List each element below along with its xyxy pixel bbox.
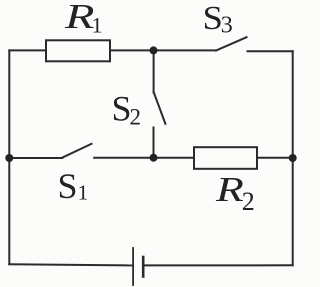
svg-text:2: 2 <box>130 104 142 129</box>
wire node A to S3 pivot <box>154 49 217 51</box>
node left junction dot <box>5 154 13 162</box>
label S3 <box>203 0 233 38</box>
node A junction dot <box>150 46 158 54</box>
wire right edge <box>292 51 294 265</box>
switch S1 <box>62 144 91 158</box>
battery short plate <box>142 257 145 277</box>
switch S2 <box>154 93 166 124</box>
label S2 <box>112 88 142 129</box>
wire S3 contact to top-right corner <box>248 50 293 52</box>
wire middle-left (left edge to S1 pivot) <box>9 157 62 159</box>
svg-text:3: 3 <box>221 12 233 38</box>
switch S2 upper wire <box>153 50 155 92</box>
wire S1 contact to node B <box>94 157 153 159</box>
node B junction dot <box>150 154 158 162</box>
svg-text:S: S <box>58 166 78 206</box>
resistor R1 <box>46 40 110 61</box>
svg-text:R: R <box>64 0 95 36</box>
resistor R2 <box>194 147 257 169</box>
switch S3 <box>216 37 247 50</box>
svg-text:1: 1 <box>92 13 103 38</box>
wire top-left (left edge to R1) <box>9 49 46 51</box>
label S1 <box>58 166 89 206</box>
svg-text:1: 1 <box>78 181 89 205</box>
wire bottom-left (to battery) <box>9 264 131 265</box>
node right junction dot <box>289 154 297 162</box>
label R1 <box>64 0 103 38</box>
wire R1 to node A <box>111 49 154 51</box>
battery long plate <box>132 248 134 285</box>
switch S2 lower wire <box>153 128 155 158</box>
wire R2 to right edge <box>258 157 293 159</box>
svg-text:R: R <box>215 170 244 209</box>
wire node B to R2 <box>154 157 194 159</box>
wire left edge <box>8 50 10 264</box>
label R2 <box>215 170 255 216</box>
svg-text:2: 2 <box>242 187 255 216</box>
wire battery to bottom-right <box>144 264 293 266</box>
